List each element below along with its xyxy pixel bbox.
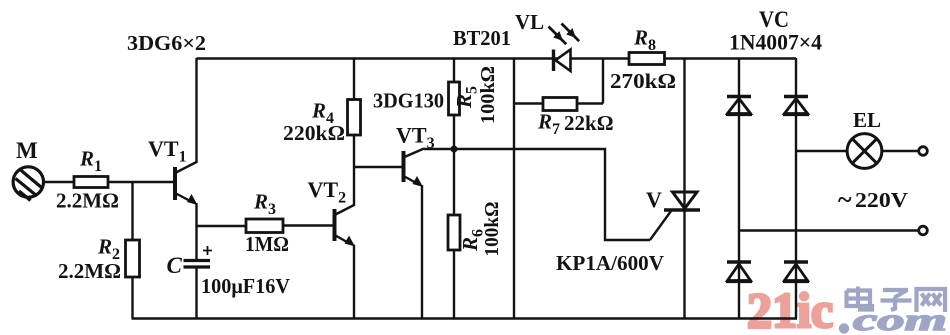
svg-text:~: ~: [838, 185, 852, 214]
wire R5 to node: [453, 115, 455, 149]
wire node to R6: [453, 149, 455, 215]
svg-text:VL: VL: [515, 10, 544, 34]
bottom rail: [132, 317, 798, 319]
wire to R7: [514, 102, 543, 104]
wire VT2 collector to R4: [353, 135, 355, 206]
svg-text:1MΩ: 1MΩ: [245, 232, 289, 256]
wire VT3 collector / thyristor gate line: [424, 149, 650, 240]
resistor R1: [74, 177, 108, 188]
resistor R8: [629, 53, 665, 65]
svg-text:EL: EL: [853, 108, 881, 132]
svg-text:R3: R3: [253, 190, 276, 219]
svg-text:KP1A/600V: KP1A/600V: [556, 251, 664, 275]
transistor VT2: [335, 205, 356, 247]
svg-text:R1: R1: [79, 147, 102, 176]
svg-text:BT201: BT201: [453, 26, 511, 50]
wire M to R1: [44, 181, 74, 183]
svg-text:R8: R8: [633, 26, 656, 55]
wire VT3 emitter to bottom rail: [421, 185, 423, 318]
wire R4 to rail: [353, 58, 355, 100]
svg-text:100kΩ: 100kΩ: [477, 66, 499, 124]
node dot R5 bottom: [451, 146, 458, 153]
wire VT2 emitter to bottom rail: [353, 245, 355, 319]
wire R3 to VT2 base: [283, 224, 334, 226]
svg-text:3DG6×2: 3DG6×2: [127, 31, 206, 55]
wire bridge right branch: [795, 58, 797, 318]
watermark chinese 电子网: [847, 287, 946, 313]
watermark 21ic.com: [747, 282, 947, 335]
svg-text:2.2MΩ: 2.2MΩ: [58, 259, 121, 283]
capacitor C: [184, 261, 211, 268]
svg-text:R722kΩ: R722kΩ: [537, 110, 614, 139]
wire C to bottom rail: [195, 267, 197, 318]
wire bridge left branch: [738, 58, 740, 318]
wire R7 to rail: [577, 58, 603, 104]
resistor R3: [246, 219, 283, 233]
resistor R2: [126, 240, 140, 277]
svg-text:100kΩ: 100kΩ: [481, 202, 503, 257]
wire emitter node to R3: [197, 225, 247, 227]
svg-text:1N4007×4: 1N4007×4: [729, 30, 822, 55]
thyristor V: [650, 58, 700, 318]
svg-text:VT1: VT1: [148, 136, 187, 166]
svg-text:220V: 220V: [855, 188, 908, 212]
bridge VC diode D2 right top: [783, 97, 809, 115]
VL light arrows: [545, 20, 582, 47]
wire vertical line rail to bottom rail: [513, 58, 515, 318]
wire AC mid to lower terminal: [739, 229, 919, 231]
svg-text:270kΩ: 270kΩ: [610, 69, 676, 93]
resistor R4: [348, 100, 361, 136]
wire VT1 collector to rail: [195, 58, 197, 163]
wire VT2 collector to VT3 base: [354, 166, 402, 168]
svg-text:VT3: VT3: [396, 123, 435, 153]
lower terminal: [919, 226, 928, 235]
LED VL: [554, 50, 571, 72]
svg-text:100μF16V: 100μF16V: [201, 274, 290, 298]
transistor VT3: [404, 149, 425, 188]
top rail: [197, 57, 797, 59]
plus sign of C: [203, 246, 212, 255]
resistor R7: [543, 98, 577, 111]
wire VT1 emitter down: [195, 203, 197, 260]
wire R1 to VT1 base: [108, 181, 174, 183]
svg-text:3DG130: 3DG130: [373, 89, 444, 113]
lamp EL: [847, 134, 882, 169]
resistor R6: [448, 215, 460, 250]
bridge VC diode D1 left top: [726, 97, 752, 115]
svg-text:C: C: [167, 253, 183, 278]
wire bridge to lamp: [796, 150, 847, 152]
touch plate M: [13, 167, 43, 201]
svg-text:2.2MΩ: 2.2MΩ: [56, 189, 119, 213]
bridge VC diode D3 left bottom: [726, 262, 752, 282]
wire R6 to bottom rail: [453, 250, 455, 318]
svg-text:21ic: 21ic: [747, 282, 833, 335]
svg-text:VT2: VT2: [308, 177, 347, 207]
upper terminal: [919, 147, 928, 156]
wire node to R2: [131, 182, 133, 240]
svg-text:VC: VC: [759, 7, 789, 32]
svg-text:V: V: [646, 187, 662, 212]
wire rail to R5: [453, 58, 455, 82]
wire lamp to upper terminal: [882, 150, 919, 152]
transistor VT1: [175, 162, 198, 205]
bridge VC diode D4 right bottom: [783, 262, 809, 282]
svg-text:220kΩ: 220kΩ: [283, 121, 345, 145]
svg-text:M: M: [16, 138, 38, 163]
resistor R5: [449, 82, 460, 115]
wire R2 to bottom rail: [131, 277, 133, 318]
